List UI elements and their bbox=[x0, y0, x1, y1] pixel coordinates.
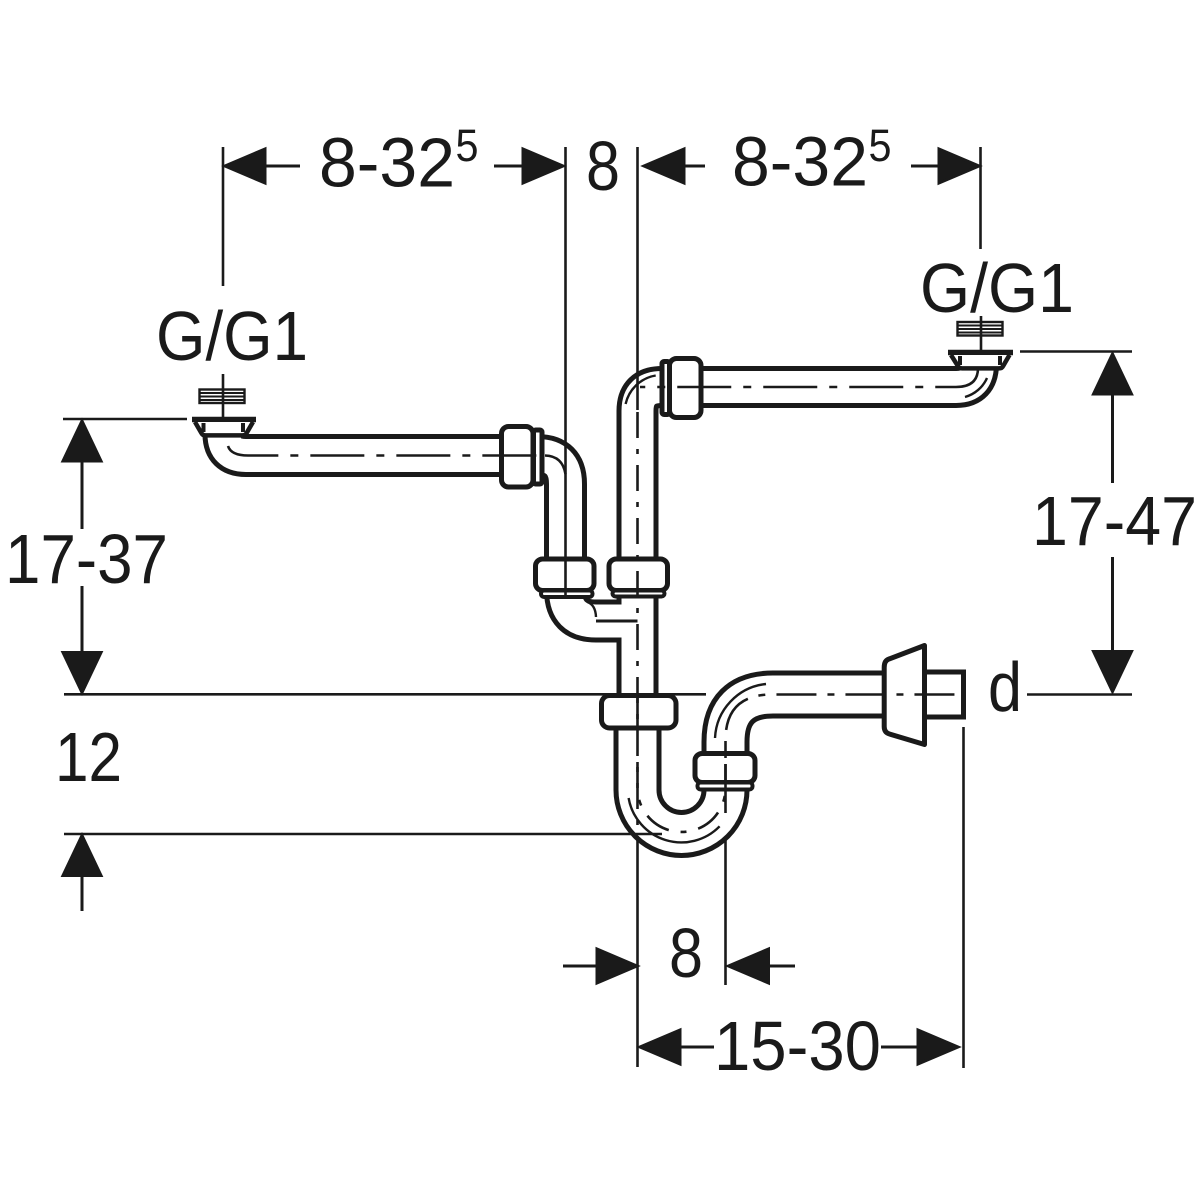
left G/G1 thread bbox=[200, 390, 245, 404]
svg-text:17-47: 17-47 bbox=[1032, 482, 1197, 560]
d reference line bbox=[1027, 693, 1132, 696]
U-arm coupling C6 bbox=[695, 754, 755, 783]
extension line x=963.5 bbox=[962, 727, 965, 1068]
extension line x=565.5 bbox=[564, 147, 567, 598]
dim 8-32.5 left: line + arrows bbox=[225, 165, 563, 168]
coupling C1 on left horizontal pipe bbox=[502, 427, 534, 488]
coupling C3 right junction bbox=[609, 559, 668, 591]
svg-text:15-30: 15-30 bbox=[714, 1007, 881, 1085]
pipe right-branch white interior bbox=[638, 356, 979, 702]
dim 15-30 bbox=[640, 1046, 958, 1049]
wall flange cone bbox=[884, 646, 924, 745]
svg-text:8-32: 8-32 bbox=[732, 123, 868, 201]
17-47 top extension bbox=[1020, 350, 1132, 353]
pipe left-branch white interior bbox=[224, 425, 566, 596]
right G/G1 nut bbox=[948, 353, 1013, 369]
coupling C2 lip bbox=[541, 591, 593, 598]
pipe junction-elbow black core bbox=[566, 572, 643, 621]
svg-text:G/G1: G/G1 bbox=[920, 249, 1074, 327]
outlet spigot d bbox=[920, 672, 964, 717]
coupling C2 left junction bbox=[536, 559, 595, 591]
left G/G1 connector stem bbox=[222, 374, 225, 417]
right G/G1 thread bbox=[958, 322, 1003, 336]
pipe trap white interior bbox=[638, 695, 933, 834]
coupling C6 lip bbox=[698, 783, 753, 790]
trap inlet nut C5 bbox=[602, 696, 677, 729]
centerline outlet pipe bbox=[726, 695, 963, 741]
dim 8 top: arrows outside bbox=[644, 165, 979, 168]
U-bend detail arc bbox=[629, 798, 720, 842]
extension line x=223 top bbox=[222, 147, 225, 286]
right G/G1 connector stem bbox=[980, 316, 983, 350]
coupling C4 on upper right pipe bbox=[670, 359, 702, 418]
dim 17-37 bbox=[81, 460, 84, 654]
right nut elbow detail bbox=[965, 378, 987, 397]
junction inner corner detail bbox=[588, 602, 597, 617]
extension line x=980.5 bbox=[979, 147, 982, 249]
svg-text:G/G1: G/G1 bbox=[156, 297, 308, 375]
centerline right pipe bbox=[640, 368, 978, 387]
dim 8 bottom bbox=[563, 965, 795, 968]
centerline U-bend bbox=[638, 762, 726, 832]
svg-text:8-32: 8-32 bbox=[319, 124, 455, 202]
upper right elbow detail bbox=[626, 376, 656, 405]
svg-text:5: 5 bbox=[869, 120, 892, 171]
dim 12 arrow bbox=[81, 874, 84, 911]
svg-text:8: 8 bbox=[669, 914, 703, 992]
reference line A bbox=[64, 693, 706, 696]
junction inner edge line bbox=[596, 620, 638, 623]
dimension lines and arrows bbox=[63, 149, 1132, 1064]
svg-text:d: d bbox=[988, 648, 1022, 726]
svg-text:12: 12 bbox=[55, 718, 122, 796]
svg-text:8: 8 bbox=[586, 127, 620, 205]
dim 8-32.5 right arrow bbox=[939, 149, 979, 183]
dim 17-47 bbox=[1111, 393, 1114, 652]
pipe left-branch black core bbox=[224, 427, 566, 596]
left mid elbow centerline turn bbox=[545, 456, 566, 475]
svg-text:5: 5 bbox=[456, 120, 479, 171]
left G/G1 nut bbox=[192, 420, 256, 436]
pipe right-branch black core bbox=[638, 358, 979, 700]
centerline left pipe bbox=[228, 446, 541, 456]
pipe junction-elbow white interior bbox=[566, 570, 643, 621]
extension line x=725.5 bbox=[724, 741, 727, 758]
17-37 top extension bbox=[63, 418, 187, 421]
pipe trap black core bbox=[638, 695, 931, 834]
reference line C bbox=[64, 833, 662, 836]
big elbow detail arc bbox=[715, 684, 766, 738]
svg-text:17-37: 17-37 bbox=[5, 520, 168, 598]
coupling C3 lip bbox=[613, 591, 665, 597]
extension line x=637.5 bbox=[636, 147, 639, 410]
